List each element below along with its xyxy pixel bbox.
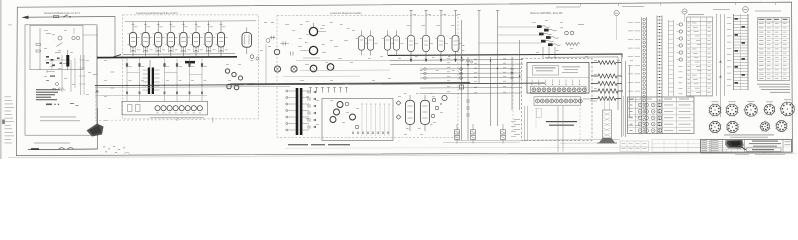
box outline left unit [25,25,97,135]
switch on bus B1 [113,55,121,57]
bank1 vertical drops [126,59,203,102]
signature stamp dark [725,140,748,150]
bank1 cathode rail [123,53,235,56]
harness horizontal runs [420,59,522,94]
dashed enclosure bank1 [123,15,259,119]
stelle drop wire b [562,106,564,152]
potentiometer P1 [309,23,317,36]
faint inner bottom rule [285,147,790,148]
svg-text:Lesestromgerät-Nehmgerät Eu z: Lesestromgerät-Nehmgerät Eu zw 62 V [136,12,178,15]
tick mark mid [212,118,215,123]
tube V17 [451,11,461,62]
lamp cluster e [234,85,239,90]
socket grid table T4 [628,97,695,134]
svg-text:Netzanschlußleitung Eu zw 12 V: Netzanschlußleitung Eu zw 12 V [44,12,80,15]
dashed rail [95,119,207,122]
pot ring [274,49,279,54]
bank2 faint run c [296,59,398,62]
socket label row1 #4 [766,101,773,104]
title block lower rule [701,152,793,154]
bank2 small marks [299,21,350,58]
tube V11 [367,31,373,56]
border section ticks [580,3,776,6]
tube V1 [129,22,137,57]
resistor R3 zigzag [591,81,622,85]
vertical rail b [625,61,627,137]
box B bottom wire [28,148,98,151]
tube socket base view row2 #3 [759,121,770,132]
transformer T2 [286,88,309,135]
bottom run a [455,140,620,141]
wire W1 mains feed [27,16,115,19]
relay contact cluster [479,25,561,58]
socket label row1 #5 [784,98,791,101]
bank2 bus b [390,63,523,66]
main bus Y2 [95,87,290,88]
note line b [40,119,80,122]
tube socket base view row1 #2 [725,103,738,116]
terminal pairs bottom [455,124,506,144]
tube V9 double system [242,28,252,55]
zu label right [583,99,597,102]
balloon B3 [682,9,687,22]
title block frame [701,140,792,153]
misc marks right of box B [103,146,130,154]
caption line 2 [730,136,768,139]
vertical rail c [629,65,631,118]
resistor R5 zigzag [591,97,621,101]
Bedienungskasten box [527,63,589,106]
left tick labels [628,22,640,126]
left box middle components [46,35,114,95]
tube socket base view row1 #1 [708,103,721,116]
top label d [755,10,781,13]
balloon B2 [614,10,619,40]
bank2 faint run b [283,75,360,77]
harness junctions [461,56,521,116]
lamp cluster c [238,76,242,80]
listing table T3 [758,18,790,81]
tube V13 [393,31,399,56]
meter M2 [256,57,259,60]
tube V2 [142,22,150,57]
capacitor bank beside T2 [308,90,316,128]
meter circle left [442,95,447,100]
resistor R1 zigzag [591,61,621,65]
under-border text a [735,153,749,156]
tube socket base view row1 #4 [763,103,775,116]
stelle left exit marks [511,106,528,141]
tube V19 lower [421,95,430,131]
bus segment Y3 [230,83,470,84]
tube V4 [167,22,175,57]
tube V14 [407,11,417,62]
Bedienungskasten dashed enclosure [522,59,593,141]
transformer T1 [143,60,160,94]
tube V10 [358,31,364,56]
potentiometer P2 [300,46,318,54]
note line c [34,142,70,145]
bank1 lower rail [95,94,207,97]
pushbutton P2 [68,148,75,150]
wire left of T4 [623,96,625,136]
knob K4 [327,64,334,71]
bank2 pin labels [415,45,464,71]
arrowhead W1 [22,16,29,19]
heavy bus B2 [388,54,623,55]
wire W3 drop [96,27,98,57]
connection table T1 [687,17,713,96]
tick row above cluster box [309,88,348,93]
notes Bemerkung [757,84,790,93]
title block extension cells [652,140,701,152]
dashed enclosure bank2 [277,15,458,137]
terminal sq 1 [460,85,464,89]
lamp X2 [291,66,297,72]
wire W2 drop to bus [114,17,116,56]
fuse F1 [54,15,59,17]
choke dark block [185,61,195,64]
tube socket base view row2 #2 [726,121,739,134]
lower tube surroundings [404,93,442,129]
socket label row1 #1 [712,100,719,103]
riser wires [717,14,725,117]
bottom run b [560,142,612,144]
circle column C1 [677,23,683,94]
drawing border frame [16,2,792,156]
jack strip with lamp row [122,101,208,121]
dashed vertical left [95,85,97,121]
lamp cluster d [227,84,232,89]
dashed vertical stelle [512,57,514,133]
components inside left box [36,28,80,70]
paper background [0,0,798,159]
meter M1 [250,55,254,59]
bus wire y57 bend [545,57,618,110]
tube V16 [437,11,447,62]
under-border text b [755,153,785,156]
bank1 top bus [125,20,256,23]
text block Regler left box [36,89,60,100]
vertical rail a [621,55,623,138]
heavy bus B1 [97,56,237,59]
Bedienungskasten label dashed box [536,108,580,140]
tube socket base view row1 #3 [744,103,759,118]
scan speckle noise [23,8,791,151]
tube V5 [180,22,188,57]
vertical harness lines [462,11,520,141]
coupling caps [280,42,293,56]
scan left edge shadow [0,0,2,159]
socket label row1 #3 [748,100,755,103]
tube V12 [384,31,390,56]
lamp cluster b [232,72,236,76]
title block text [747,141,791,152]
tube V15 [422,11,432,62]
margin small mark [8,24,12,27]
T1 header label [688,13,704,16]
ladder terminal block [727,14,748,90]
cluster caption dark [288,144,350,145]
bank2 faint run a [300,69,390,72]
micro annotation labels [44,20,633,135]
tube socket base view row2 #1 [709,121,722,134]
lamp cluster a [225,69,229,73]
balloon B1 [743,7,749,13]
tube V18 lower [406,95,415,131]
svg-text:Stelle Eu GMT8BA1, Ehze WK: Stelle Eu GMT8BA1, Ehze WK [530,12,563,15]
note line a [40,116,76,119]
small grid table bottom left [620,141,649,152]
terminal strip S2 [657,16,662,135]
dark pointer blob [87,124,104,137]
resistor R4 zigzag [591,89,623,93]
margin dark tick [2,120,5,125]
bus B2 corner drop [621,55,623,58]
left box lower parts [46,103,79,106]
tube socket base view row2 #4 [775,120,787,132]
resistor R2 zigzag [591,74,622,78]
diamond D2 [396,115,401,120]
margin revision text column [5,97,15,144]
inner box left unit [30,25,83,69]
regulator cluster box [322,98,393,140]
stelle drop wire a [557,106,559,152]
inter-bank parts [264,22,276,84]
caption line 1 [724,134,774,137]
knob K3 [310,65,317,72]
tube V6 [192,22,200,57]
bottom run c [443,141,520,143]
tube V8 [217,22,225,57]
tube socket base view row1 #5 [779,101,795,117]
terminal strip S1 [642,17,647,134]
terminal strip S3 [669,20,674,96]
wire W4 drop to blob [96,56,98,126]
aux parts near relays [560,24,584,46]
top label c [713,8,730,11]
cable pedestal [597,84,617,143]
main bus Y1 [95,83,545,86]
tube V7 [205,22,213,57]
box B right edge [97,108,99,149]
socket label row1 #2 [729,100,736,103]
node N1 [69,16,71,18]
lamp X1 [274,66,280,72]
switch S1 [63,15,69,17]
pushbutton P1 [59,148,66,150]
paper bottom edge [8,153,796,158]
top label a [556,6,580,9]
tube V3 [155,22,163,57]
bank2 bus a [390,59,523,62]
svg-text:Lesestrom-Regler Eu zw(alle): Lesestrom-Regler Eu zw(alle) [330,12,362,15]
diamond D1 [396,101,401,106]
solder blob [31,148,39,150]
top label b [622,5,644,8]
